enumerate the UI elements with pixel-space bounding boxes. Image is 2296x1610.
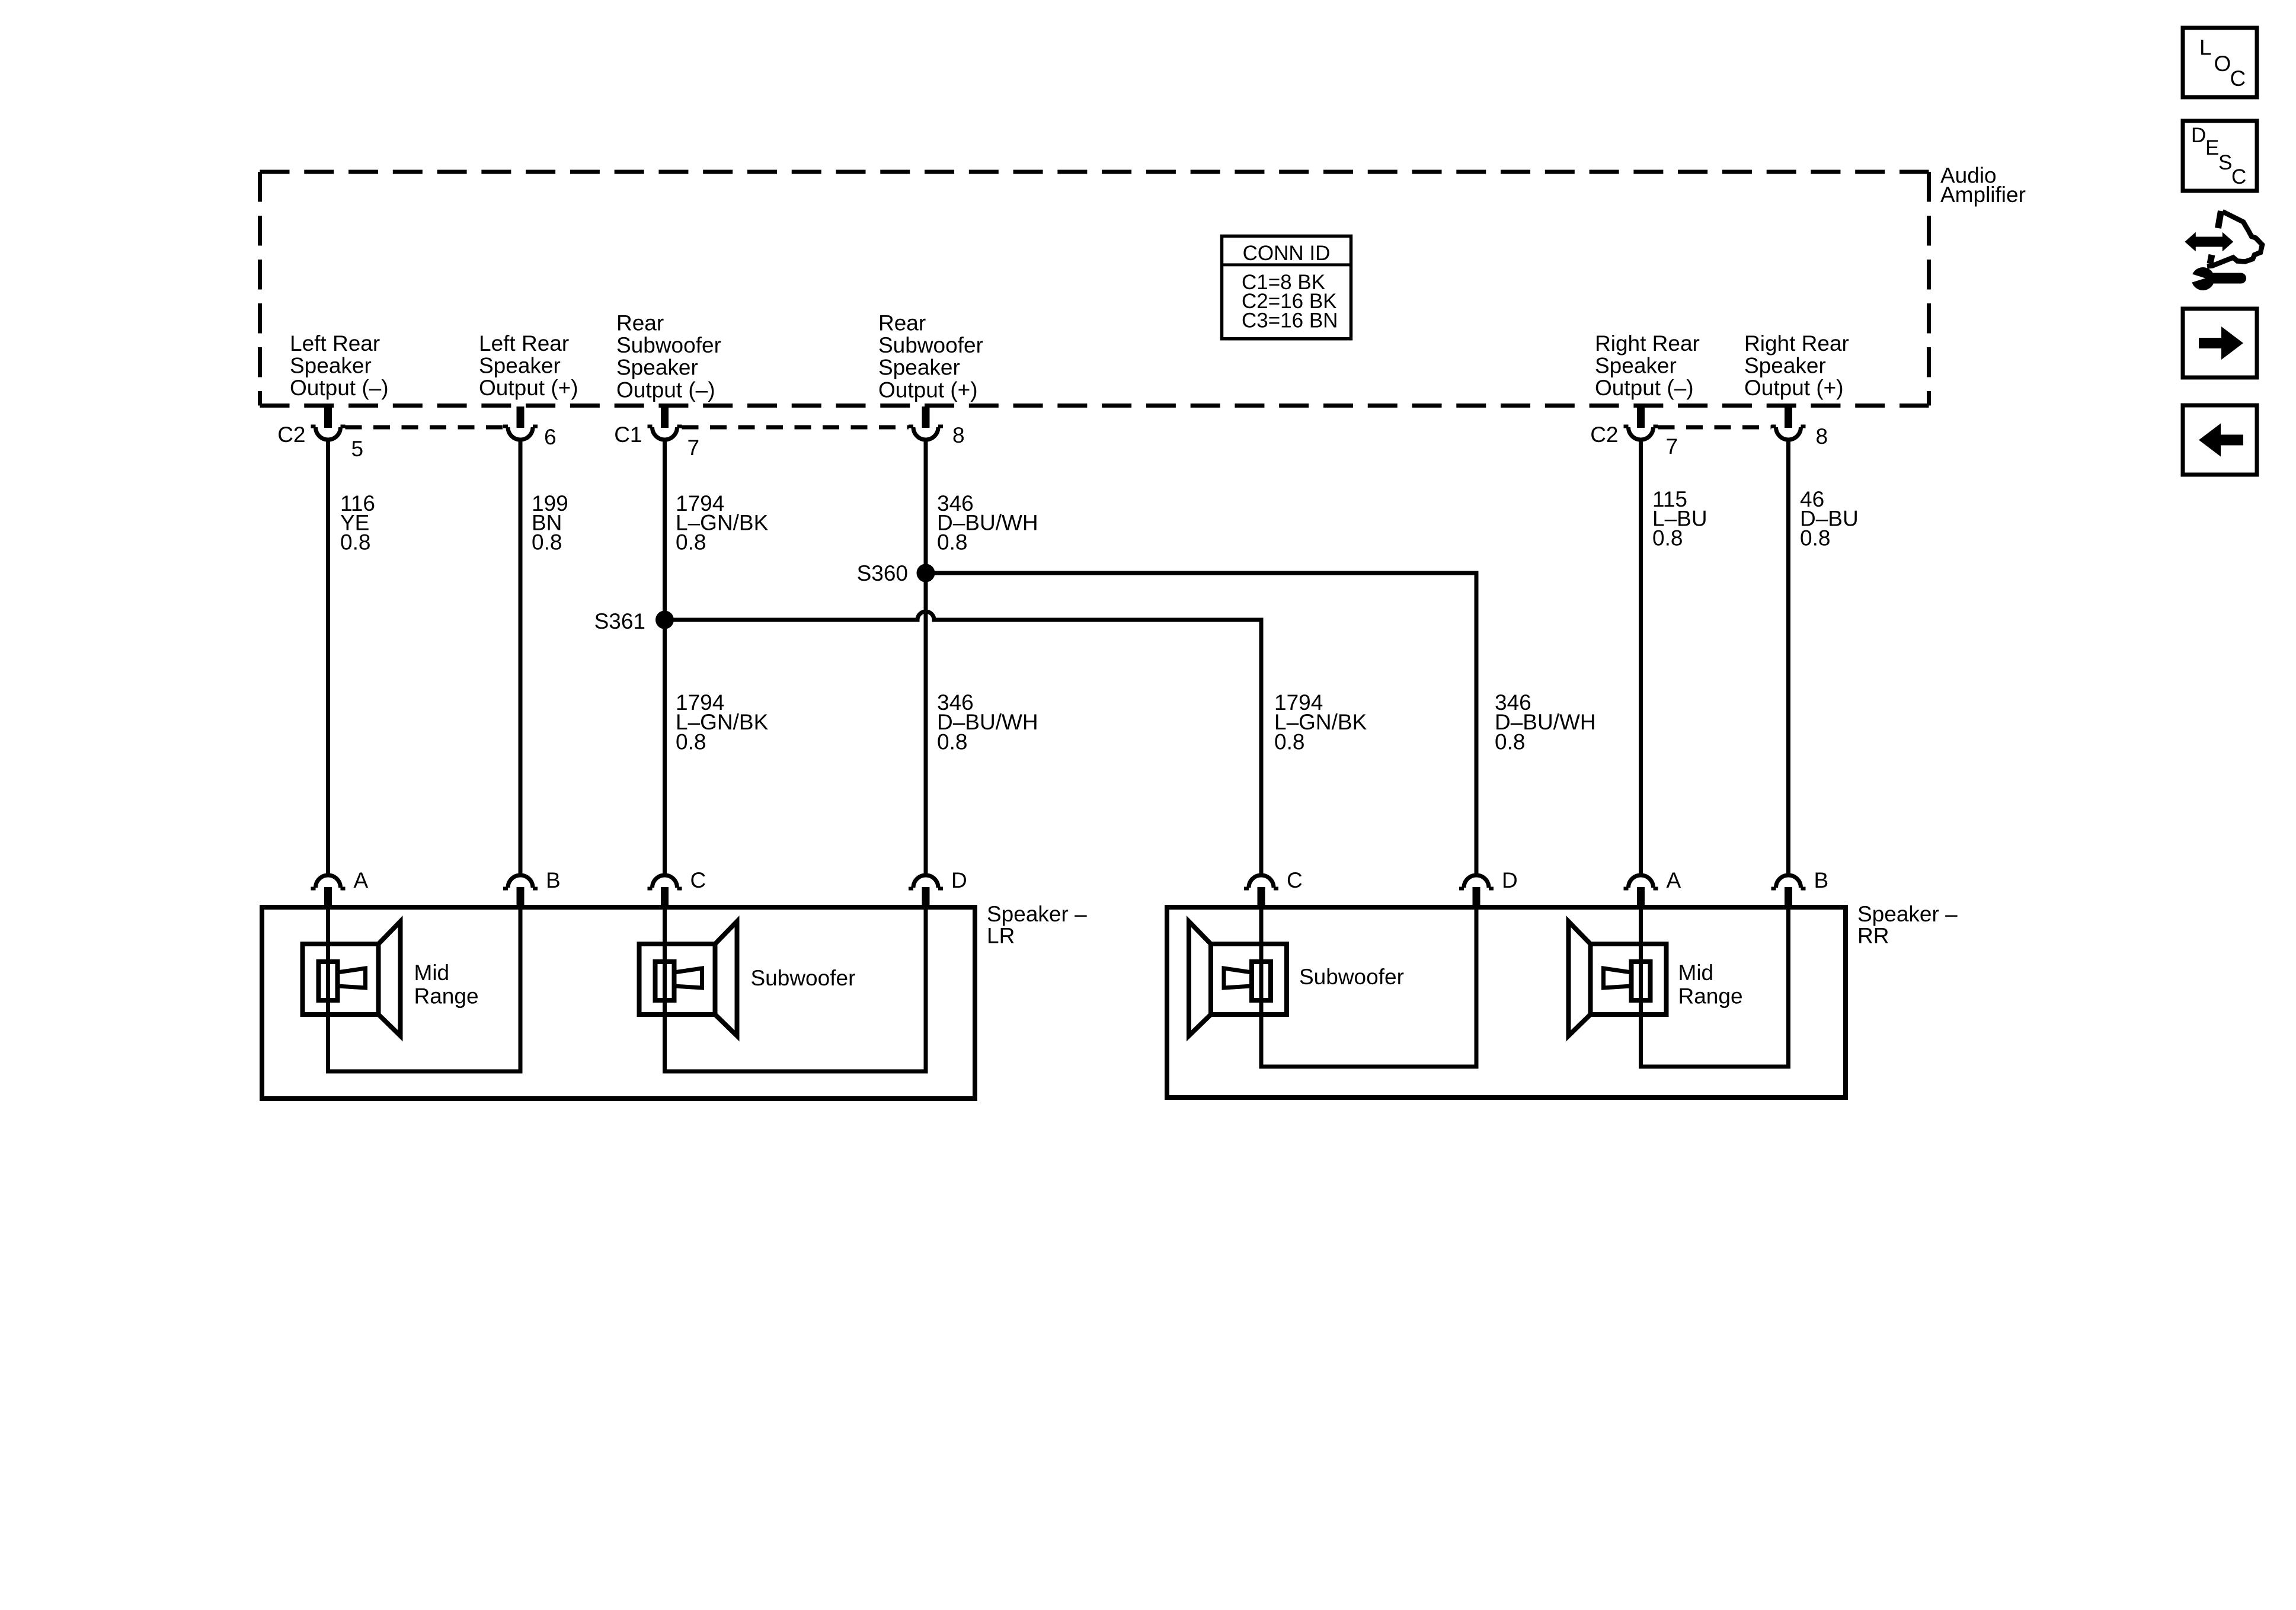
pin number 5 bbox=[351, 437, 364, 461]
label Speaker - RR bbox=[1857, 902, 1958, 948]
connector pin C speaker LR bbox=[648, 875, 682, 908]
pin letter A of A speaker RR bbox=[1667, 868, 1681, 892]
connector pin C speaker RR bbox=[1244, 875, 1278, 908]
connector ID table CONN ID bbox=[1222, 236, 1351, 338]
svg-text:0.8: 0.8 bbox=[1495, 729, 1525, 754]
connector pin C1-8 at amplifier bbox=[909, 406, 943, 440]
label Subwoofer LR bbox=[751, 966, 856, 990]
connector pin C1-7 at amplifier bbox=[648, 406, 682, 440]
wire 46 D-BU from pin 8 to speaker RR B bbox=[1786, 440, 1790, 875]
label Mid Range LR bbox=[414, 961, 479, 1009]
svg-text:Subwoofer: Subwoofer bbox=[616, 333, 721, 357]
svg-text:D: D bbox=[951, 868, 967, 892]
svg-text:Speaker –: Speaker – bbox=[987, 902, 1087, 926]
svg-text:C3=16 BN: C3=16 BN bbox=[1242, 309, 1338, 332]
wire 199 BN from pin 6 to speaker LR B bbox=[519, 440, 523, 875]
svg-text:Speaker –: Speaker – bbox=[1857, 902, 1958, 926]
svg-text:0.8: 0.8 bbox=[1652, 526, 1683, 550]
pin number 7 left bbox=[687, 436, 700, 460]
connector pin C2-8 right at amplifier bbox=[1771, 406, 1806, 440]
svg-text:C: C bbox=[2230, 66, 2246, 91]
svg-text:D: D bbox=[1502, 868, 1518, 892]
label Audio Amplifier bbox=[1940, 163, 2026, 207]
speaker symbol mid range RR bbox=[1569, 921, 1667, 1036]
label Speaker - LR bbox=[987, 902, 1087, 948]
svg-text:7: 7 bbox=[1666, 434, 1678, 459]
speaker box RR bbox=[1167, 907, 1846, 1097]
connector pin D speaker LR bbox=[909, 875, 943, 908]
svg-text:Subwoofer: Subwoofer bbox=[751, 966, 856, 990]
svg-text:C: C bbox=[2231, 165, 2246, 188]
connector pin C2-5 at amplifier bbox=[311, 406, 346, 440]
wire 115 L-BU from pin 7 to speaker RR A bbox=[1639, 440, 1643, 875]
internal wire C to D inside speaker LR bbox=[665, 908, 926, 1071]
svg-text:Amplifier: Amplifier bbox=[1940, 183, 2026, 207]
wire label 346 D-BU/WH 0.8 lower right bbox=[1495, 690, 1596, 754]
audio amplifier dashed box bbox=[260, 172, 1929, 405]
port label Rear Subwoofer Speaker Output (+) bbox=[878, 311, 983, 402]
speaker symbol subwoofer RR bbox=[1189, 921, 1287, 1036]
pin number 7 right bbox=[1666, 434, 1678, 459]
svg-text:0.8: 0.8 bbox=[937, 729, 967, 754]
wire label 1794 L-GN/BK 0.8 bbox=[676, 491, 769, 554]
wire label 346 D-BU/WH 0.8 bbox=[937, 491, 1038, 554]
svg-text:0.8: 0.8 bbox=[676, 530, 706, 554]
connector C2 dotted boundary pins 5-6 bbox=[346, 425, 504, 430]
svg-text:Output (–): Output (–) bbox=[616, 377, 715, 402]
connector pin D speaker RR bbox=[1459, 875, 1494, 908]
svg-text:Right Rear: Right Rear bbox=[1744, 331, 1849, 356]
internal wire C to D inside speaker RR bbox=[1261, 908, 1476, 1067]
connector pin A speaker LR bbox=[311, 875, 346, 908]
speaker symbol mid range LR bbox=[303, 921, 401, 1036]
svg-text:Mid: Mid bbox=[414, 961, 450, 985]
svg-text:Speaker: Speaker bbox=[616, 356, 698, 380]
CONN ID entries bbox=[1242, 271, 1338, 332]
icon LOC box bbox=[2183, 28, 2257, 97]
svg-text:B: B bbox=[1814, 868, 1829, 892]
wire label 1794 L-GN/BK 0.8 lower right bbox=[1274, 690, 1367, 754]
icon arrow left box bbox=[2183, 405, 2257, 475]
label C2 left bbox=[277, 422, 305, 447]
wire 116 YE from pin 5 to speaker LR A bbox=[326, 440, 330, 875]
svg-text:Output (+): Output (+) bbox=[479, 376, 578, 400]
speaker symbol subwoofer LR bbox=[639, 921, 737, 1036]
svg-text:Speaker: Speaker bbox=[1595, 354, 1677, 378]
svg-text:Mid: Mid bbox=[1678, 961, 1714, 985]
label Subwoofer RR bbox=[1299, 965, 1404, 989]
svg-text:CONN ID: CONN ID bbox=[1243, 242, 1331, 265]
svg-text:Speaker: Speaker bbox=[290, 354, 372, 378]
svg-text:Range: Range bbox=[1678, 984, 1743, 1009]
svg-text:Right Rear: Right Rear bbox=[1595, 331, 1700, 356]
speaker box LR bbox=[262, 907, 975, 1099]
internal wire A to B inside speaker RR bbox=[1641, 908, 1789, 1067]
svg-text:0.8: 0.8 bbox=[1274, 729, 1304, 754]
svg-text:6: 6 bbox=[544, 425, 557, 449]
pin letter D of D speaker LR bbox=[951, 868, 967, 892]
svg-text:Speaker: Speaker bbox=[878, 356, 960, 380]
pin letter A of A speaker LR bbox=[354, 868, 369, 892]
wire label 1794 L-GN/BK 0.8 lower left bbox=[676, 690, 769, 754]
internal wire A to B inside speaker LR bbox=[328, 908, 521, 1071]
svg-text:O: O bbox=[2214, 52, 2231, 76]
label Mid Range RR bbox=[1678, 961, 1743, 1009]
svg-text:Subwoofer: Subwoofer bbox=[878, 333, 983, 357]
wire label 116 YE 0.8 bbox=[340, 491, 375, 554]
wire 346 D-BU/WH from S360 to speaker RR D bbox=[926, 573, 1476, 875]
connector pin C2-7 right at amplifier bbox=[1624, 406, 1658, 440]
svg-text:0.8: 0.8 bbox=[937, 530, 967, 554]
svg-text:Speaker: Speaker bbox=[1744, 354, 1826, 378]
svg-text:Output (–): Output (–) bbox=[1595, 376, 1694, 400]
pin number 6 bbox=[544, 425, 557, 449]
svg-text:Rear: Rear bbox=[616, 311, 664, 335]
svg-text:0.8: 0.8 bbox=[1800, 526, 1830, 550]
svg-text:C2: C2 bbox=[277, 422, 305, 447]
svg-text:Rear: Rear bbox=[878, 311, 926, 335]
connector C2 right dotted boundary pins 7-8 bbox=[1658, 425, 1771, 430]
svg-text:Speaker: Speaker bbox=[479, 354, 561, 378]
splice S361 bbox=[655, 611, 674, 629]
svg-text:0.8: 0.8 bbox=[676, 729, 706, 754]
svg-text:LR: LR bbox=[987, 924, 1015, 948]
svg-text:Output (+): Output (+) bbox=[1744, 376, 1844, 400]
svg-text:Output (+): Output (+) bbox=[878, 377, 978, 402]
icon DESC box bbox=[2183, 121, 2257, 191]
port label Left Rear Speaker Output (-) bbox=[290, 331, 389, 400]
svg-text:Left Rear: Left Rear bbox=[290, 331, 380, 356]
svg-text:S: S bbox=[2218, 151, 2232, 174]
pin letter B of B speaker RR bbox=[1814, 868, 1829, 892]
svg-text:5: 5 bbox=[351, 437, 364, 461]
label S360 bbox=[857, 561, 908, 585]
connector pin C2-6 at amplifier bbox=[503, 406, 538, 440]
svg-text:E: E bbox=[2205, 136, 2219, 159]
pin number 8 right bbox=[1816, 424, 1828, 449]
svg-text:D: D bbox=[2191, 124, 2206, 147]
pin number 8 left bbox=[952, 423, 965, 447]
label S361 bbox=[594, 609, 645, 633]
port label Right Rear Speaker Output (+) bbox=[1744, 331, 1849, 400]
svg-text:S361: S361 bbox=[594, 609, 645, 633]
wire label 46 D-BU 0.8 bbox=[1800, 487, 1859, 550]
svg-text:8: 8 bbox=[1816, 424, 1828, 449]
svg-text:C: C bbox=[690, 868, 706, 892]
label C2 right bbox=[1590, 422, 1618, 447]
wire label 199 BN 0.8 bbox=[532, 491, 568, 554]
pin letter C of C speaker LR bbox=[690, 868, 706, 892]
svg-text:Subwoofer: Subwoofer bbox=[1299, 965, 1404, 989]
svg-text:0.8: 0.8 bbox=[340, 530, 370, 554]
svg-text:Output (–): Output (–) bbox=[290, 376, 389, 400]
wire 1794 L-GN/BK from S361 to speaker RR C with crossover hop bbox=[665, 612, 1262, 875]
connector C1 dotted boundary pins 7-8 bbox=[682, 425, 909, 430]
svg-text:A: A bbox=[1667, 868, 1681, 892]
label C1 bbox=[614, 422, 642, 447]
svg-text:C2: C2 bbox=[1590, 422, 1618, 447]
port label Rear Subwoofer Speaker Output (-) bbox=[616, 311, 721, 402]
svg-text:7: 7 bbox=[687, 436, 700, 460]
svg-text:0.8: 0.8 bbox=[532, 530, 562, 554]
pin letter B of B speaker LR bbox=[546, 868, 561, 892]
connector pin B speaker RR bbox=[1771, 875, 1806, 908]
svg-text:RR: RR bbox=[1857, 924, 1889, 948]
svg-text:Range: Range bbox=[414, 984, 479, 1009]
wire 1794 L-GN/BK from pin 7 to splice S361 and speaker LR C bbox=[663, 440, 667, 875]
connector pin B speaker LR bbox=[503, 875, 538, 908]
icon vehicle data link with wrench bbox=[2185, 211, 2262, 290]
splice S360 bbox=[917, 564, 935, 582]
pin letter C of C speaker RR bbox=[1287, 868, 1303, 892]
pin letter D of D speaker RR bbox=[1502, 868, 1518, 892]
svg-text:Left Rear: Left Rear bbox=[479, 331, 569, 356]
wire 346 D-BU/WH from pin 8 to splice S360 and speaker LR D bbox=[924, 440, 928, 875]
svg-text:C1: C1 bbox=[614, 422, 642, 447]
port label Left Rear Speaker Output (+) bbox=[479, 331, 578, 400]
svg-text:S360: S360 bbox=[857, 561, 908, 585]
svg-text:B: B bbox=[546, 868, 561, 892]
wire label 115 L-BU 0.8 bbox=[1652, 487, 1707, 550]
port label Right Rear Speaker Output (-) bbox=[1595, 331, 1700, 400]
svg-text:8: 8 bbox=[952, 423, 965, 447]
icon arrow right box bbox=[2183, 309, 2257, 377]
svg-text:L: L bbox=[2199, 36, 2212, 60]
svg-text:A: A bbox=[354, 868, 369, 892]
svg-text:C: C bbox=[1287, 868, 1303, 892]
wire label 346 D-BU/WH 0.8 lower left bbox=[937, 690, 1038, 754]
connector pin A speaker RR bbox=[1624, 875, 1658, 908]
